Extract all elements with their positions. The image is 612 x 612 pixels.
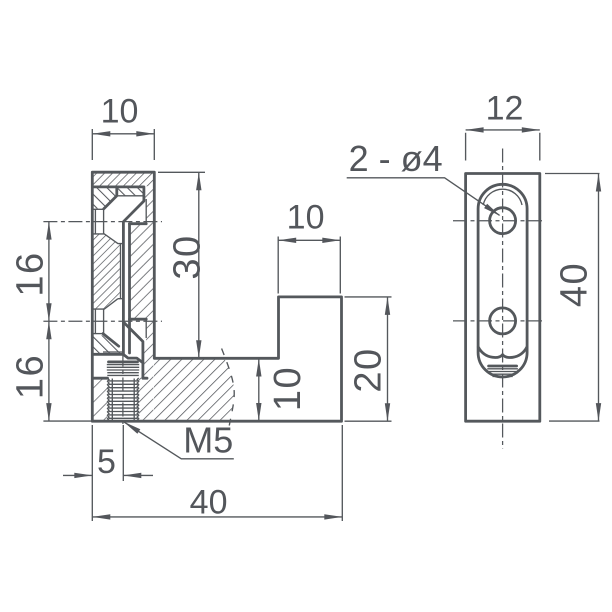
set screw top in spring cavity [109, 360, 138, 363]
right view: detent ball silhouette in groove [478, 347, 527, 357]
M5 thread major edge right zigzag [137, 378, 139, 420]
spring cavity bottom edge left [93, 377, 108, 380]
dimension 10 hook lip width [278, 237, 340, 294]
dimension 16 hole spacing [48, 222, 50, 422]
dimension 40 overall width [92, 425, 342, 521]
svg-text:10: 10 [267, 366, 309, 411]
part outline: L-shaped hook body, sectioned side view [92, 172, 341, 421]
lower funnel right boundary [145, 319, 147, 338]
hatch right wall strip [144, 188, 154, 421]
label M5 thread callout with leader [124, 422, 234, 459]
svg-text:16: 16 [10, 354, 52, 399]
svg-text:20: 20 [348, 347, 390, 392]
hatch left block between holes [93, 235, 122, 309]
right view: groove chamfer arc [483, 189, 522, 205]
hole 2 countersink chamfer lower [103, 334, 119, 347]
hole mouth ledges [95, 209, 103, 333]
lower funnel top edge [130, 318, 147, 321]
centerline hole 1 left view [43, 221, 162, 223]
M5 thread crest lines [109, 381, 138, 418]
white cover slot mouth triangle [119, 347, 144, 363]
hole 1 countersink chamfer upper [104, 188, 117, 209]
hatch top band [93, 173, 153, 186]
chamfer jog [118, 298, 124, 300]
right view: hole 2 circle o4 [490, 308, 516, 334]
label 2-o4 holes callout with leader [347, 178, 500, 216]
svg-text:10: 10 [101, 93, 139, 131]
hole 2 top edge and chamfer [93, 299, 118, 309]
svg-text:30: 30 [167, 234, 209, 279]
right view: oblong groove outline [478, 184, 527, 377]
dimension 12 plate width [466, 130, 540, 161]
hole 2 bottom edge [93, 333, 103, 335]
right view: plate outline 12x40 [466, 174, 540, 422]
centerline M5 thread axis [122, 353, 124, 428]
centerline hole 2 left view [43, 320, 162, 322]
svg-text:M5: M5 [183, 420, 233, 461]
upper funnel bottom edge [130, 222, 147, 225]
right view: centerline hole 2 [453, 320, 545, 322]
lower collar band boundary [103, 351, 122, 353]
dimension 10 leg height [258, 359, 260, 422]
dimension 20 lip height [345, 297, 392, 421]
svg-text:16: 16 [10, 251, 52, 296]
hole 1 top edge [93, 208, 104, 210]
svg-text:2 - ø4: 2 - ø4 [349, 138, 443, 179]
white cavity: mounting holes, countersink funnels and blade slot (section view) [93, 196, 146, 347]
svg-text:12: 12 [486, 90, 524, 128]
right view: vertical centerline [502, 149, 504, 449]
svg-text:5: 5 [97, 443, 116, 481]
dimension 40 plate height [545, 174, 600, 422]
groove top edge and upper funnel chevron into slot left wall [93, 187, 144, 354]
dimension 30 column inner height [158, 172, 205, 358]
right view: M5 thread seen at groove bottom [489, 365, 517, 368]
hole 1 bottom edge and chamfer [93, 234, 123, 244]
right view: centerline hole 1 [453, 220, 545, 222]
partial-section break arc in leg (dashed) [222, 349, 235, 429]
M5 thread minor diameter lines [112, 379, 134, 421]
hatch right block [130, 196, 144, 421]
dimension 16 lower hole to bottom [10, 354, 52, 399]
slot wall chamfer edge line [120, 244, 122, 299]
hatch chamfer collar band upper [93, 188, 143, 209]
svg-text:40: 40 [554, 262, 596, 307]
slot right wall [128, 224, 131, 353]
white cover spring cavity and thread [93, 355, 143, 421]
spring cavity bottom edge right [143, 377, 147, 380]
upper funnel right boundary [145, 199, 147, 224]
svg-text:10: 10 [287, 199, 325, 237]
M5 thread major edge left zigzag [108, 378, 110, 420]
svg-text:40: 40 [190, 484, 228, 522]
dimension 10 column thickness [92, 129, 154, 160]
lower funnel chevron and cavity right wall [123, 322, 142, 378]
hatch leg partial section [154, 359, 234, 420]
upper collar band boundary [117, 195, 144, 197]
hatch chamfer collar band lower [93, 335, 122, 353]
spring cavity top edge with slot mouth step [93, 354, 143, 362]
right view: hole 1 circle o4 [490, 208, 516, 234]
hatch bottom left block [93, 379, 107, 420]
dimension 5 thread axis offset [63, 425, 153, 521]
